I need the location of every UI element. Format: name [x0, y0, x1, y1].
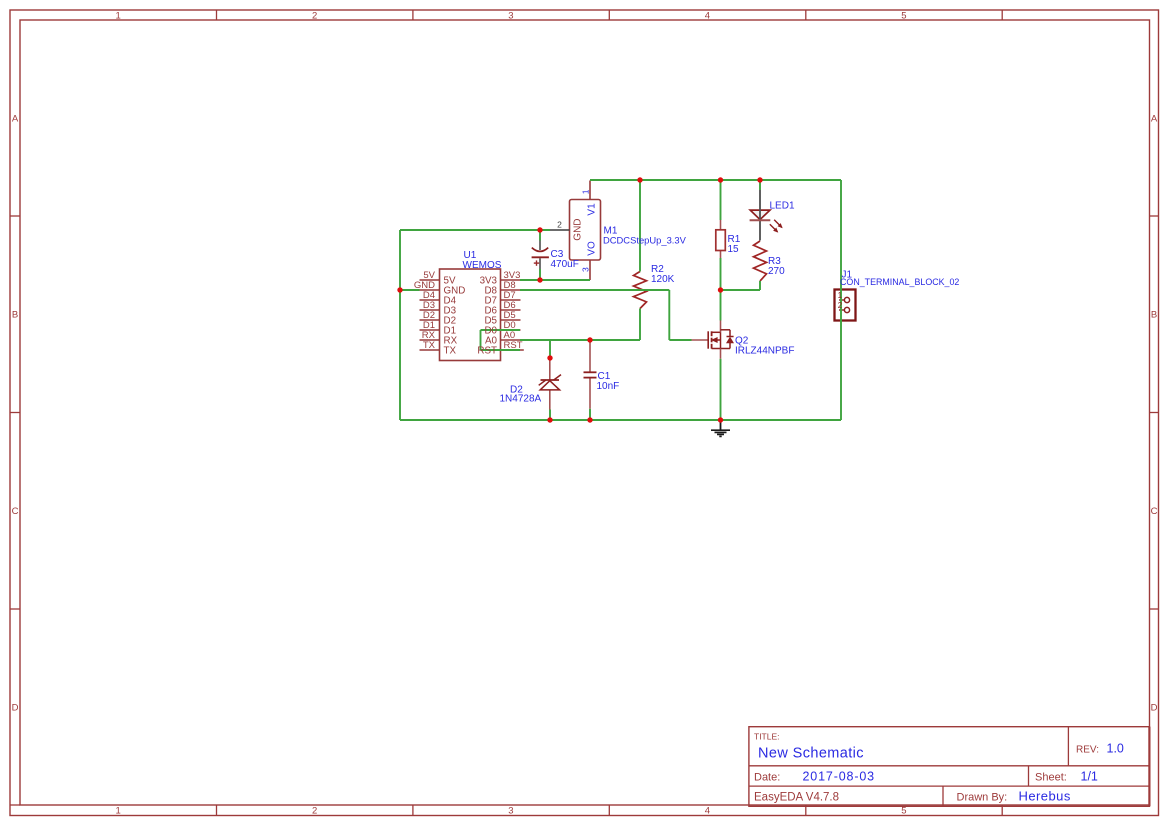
svg-text:3: 3 [581, 267, 591, 272]
svg-text:1: 1 [838, 291, 843, 300]
svg-text:4: 4 [705, 10, 710, 21]
svg-text:1: 1 [581, 189, 591, 194]
svg-text:VO: VO [587, 241, 598, 256]
svg-text:TX: TX [444, 345, 457, 356]
svg-text:TITLE:: TITLE: [754, 732, 780, 742]
svg-text:2: 2 [838, 301, 843, 310]
svg-text:WEMOS: WEMOS [463, 260, 502, 271]
svg-text:EasyEDA V4.7.8: EasyEDA V4.7.8 [754, 791, 839, 803]
svg-text:CON_TERMINAL_BLOCK_02: CON_TERMINAL_BLOCK_02 [840, 277, 959, 287]
svg-text:A: A [12, 113, 19, 124]
svg-text:15: 15 [728, 244, 740, 255]
svg-text:2: 2 [557, 220, 562, 230]
svg-text:4: 4 [705, 805, 710, 816]
svg-text:Date:: Date: [754, 771, 780, 783]
svg-text:Sheet:: Sheet: [1035, 771, 1067, 783]
svg-text:270: 270 [768, 266, 785, 277]
svg-text:10nF: 10nF [597, 381, 620, 392]
svg-text:RST: RST [504, 340, 523, 351]
svg-text:2: 2 [312, 10, 317, 21]
svg-text:D: D [1151, 702, 1158, 713]
svg-text:D: D [12, 702, 19, 713]
svg-text:DCDCStepUp_3.3V: DCDCStepUp_3.3V [603, 235, 687, 246]
svg-text:3: 3 [508, 10, 513, 21]
svg-text:REV:: REV: [1076, 744, 1099, 755]
svg-text:Drawn By:: Drawn By: [957, 791, 1008, 803]
svg-text:C: C [1151, 506, 1158, 517]
svg-text:3: 3 [508, 805, 513, 816]
svg-text:1/1: 1/1 [1081, 770, 1098, 784]
svg-text:IRLZ44NPBF: IRLZ44NPBF [735, 346, 794, 357]
svg-text:470uF: 470uF [551, 259, 579, 270]
svg-text:TX: TX [423, 340, 436, 351]
svg-text:120K: 120K [651, 274, 675, 285]
svg-text:B: B [1151, 310, 1157, 321]
svg-text:A: A [1151, 113, 1158, 124]
svg-text:2: 2 [312, 805, 317, 816]
svg-text:C: C [12, 506, 19, 517]
svg-text:2017-08-03: 2017-08-03 [803, 770, 875, 784]
svg-text:New Schematic: New Schematic [758, 746, 864, 762]
svg-text:1: 1 [116, 805, 121, 816]
svg-text:1.0: 1.0 [1107, 742, 1124, 756]
svg-text:5: 5 [901, 10, 906, 21]
svg-text:RST: RST [477, 345, 497, 356]
svg-text:1: 1 [116, 10, 121, 21]
svg-text:Herebus: Herebus [1019, 789, 1071, 804]
svg-text:B: B [12, 310, 18, 321]
svg-text:1N4728A: 1N4728A [500, 394, 542, 405]
svg-text:LED1: LED1 [770, 201, 795, 212]
svg-text:GND: GND [572, 218, 583, 240]
svg-text:V1: V1 [587, 203, 598, 216]
